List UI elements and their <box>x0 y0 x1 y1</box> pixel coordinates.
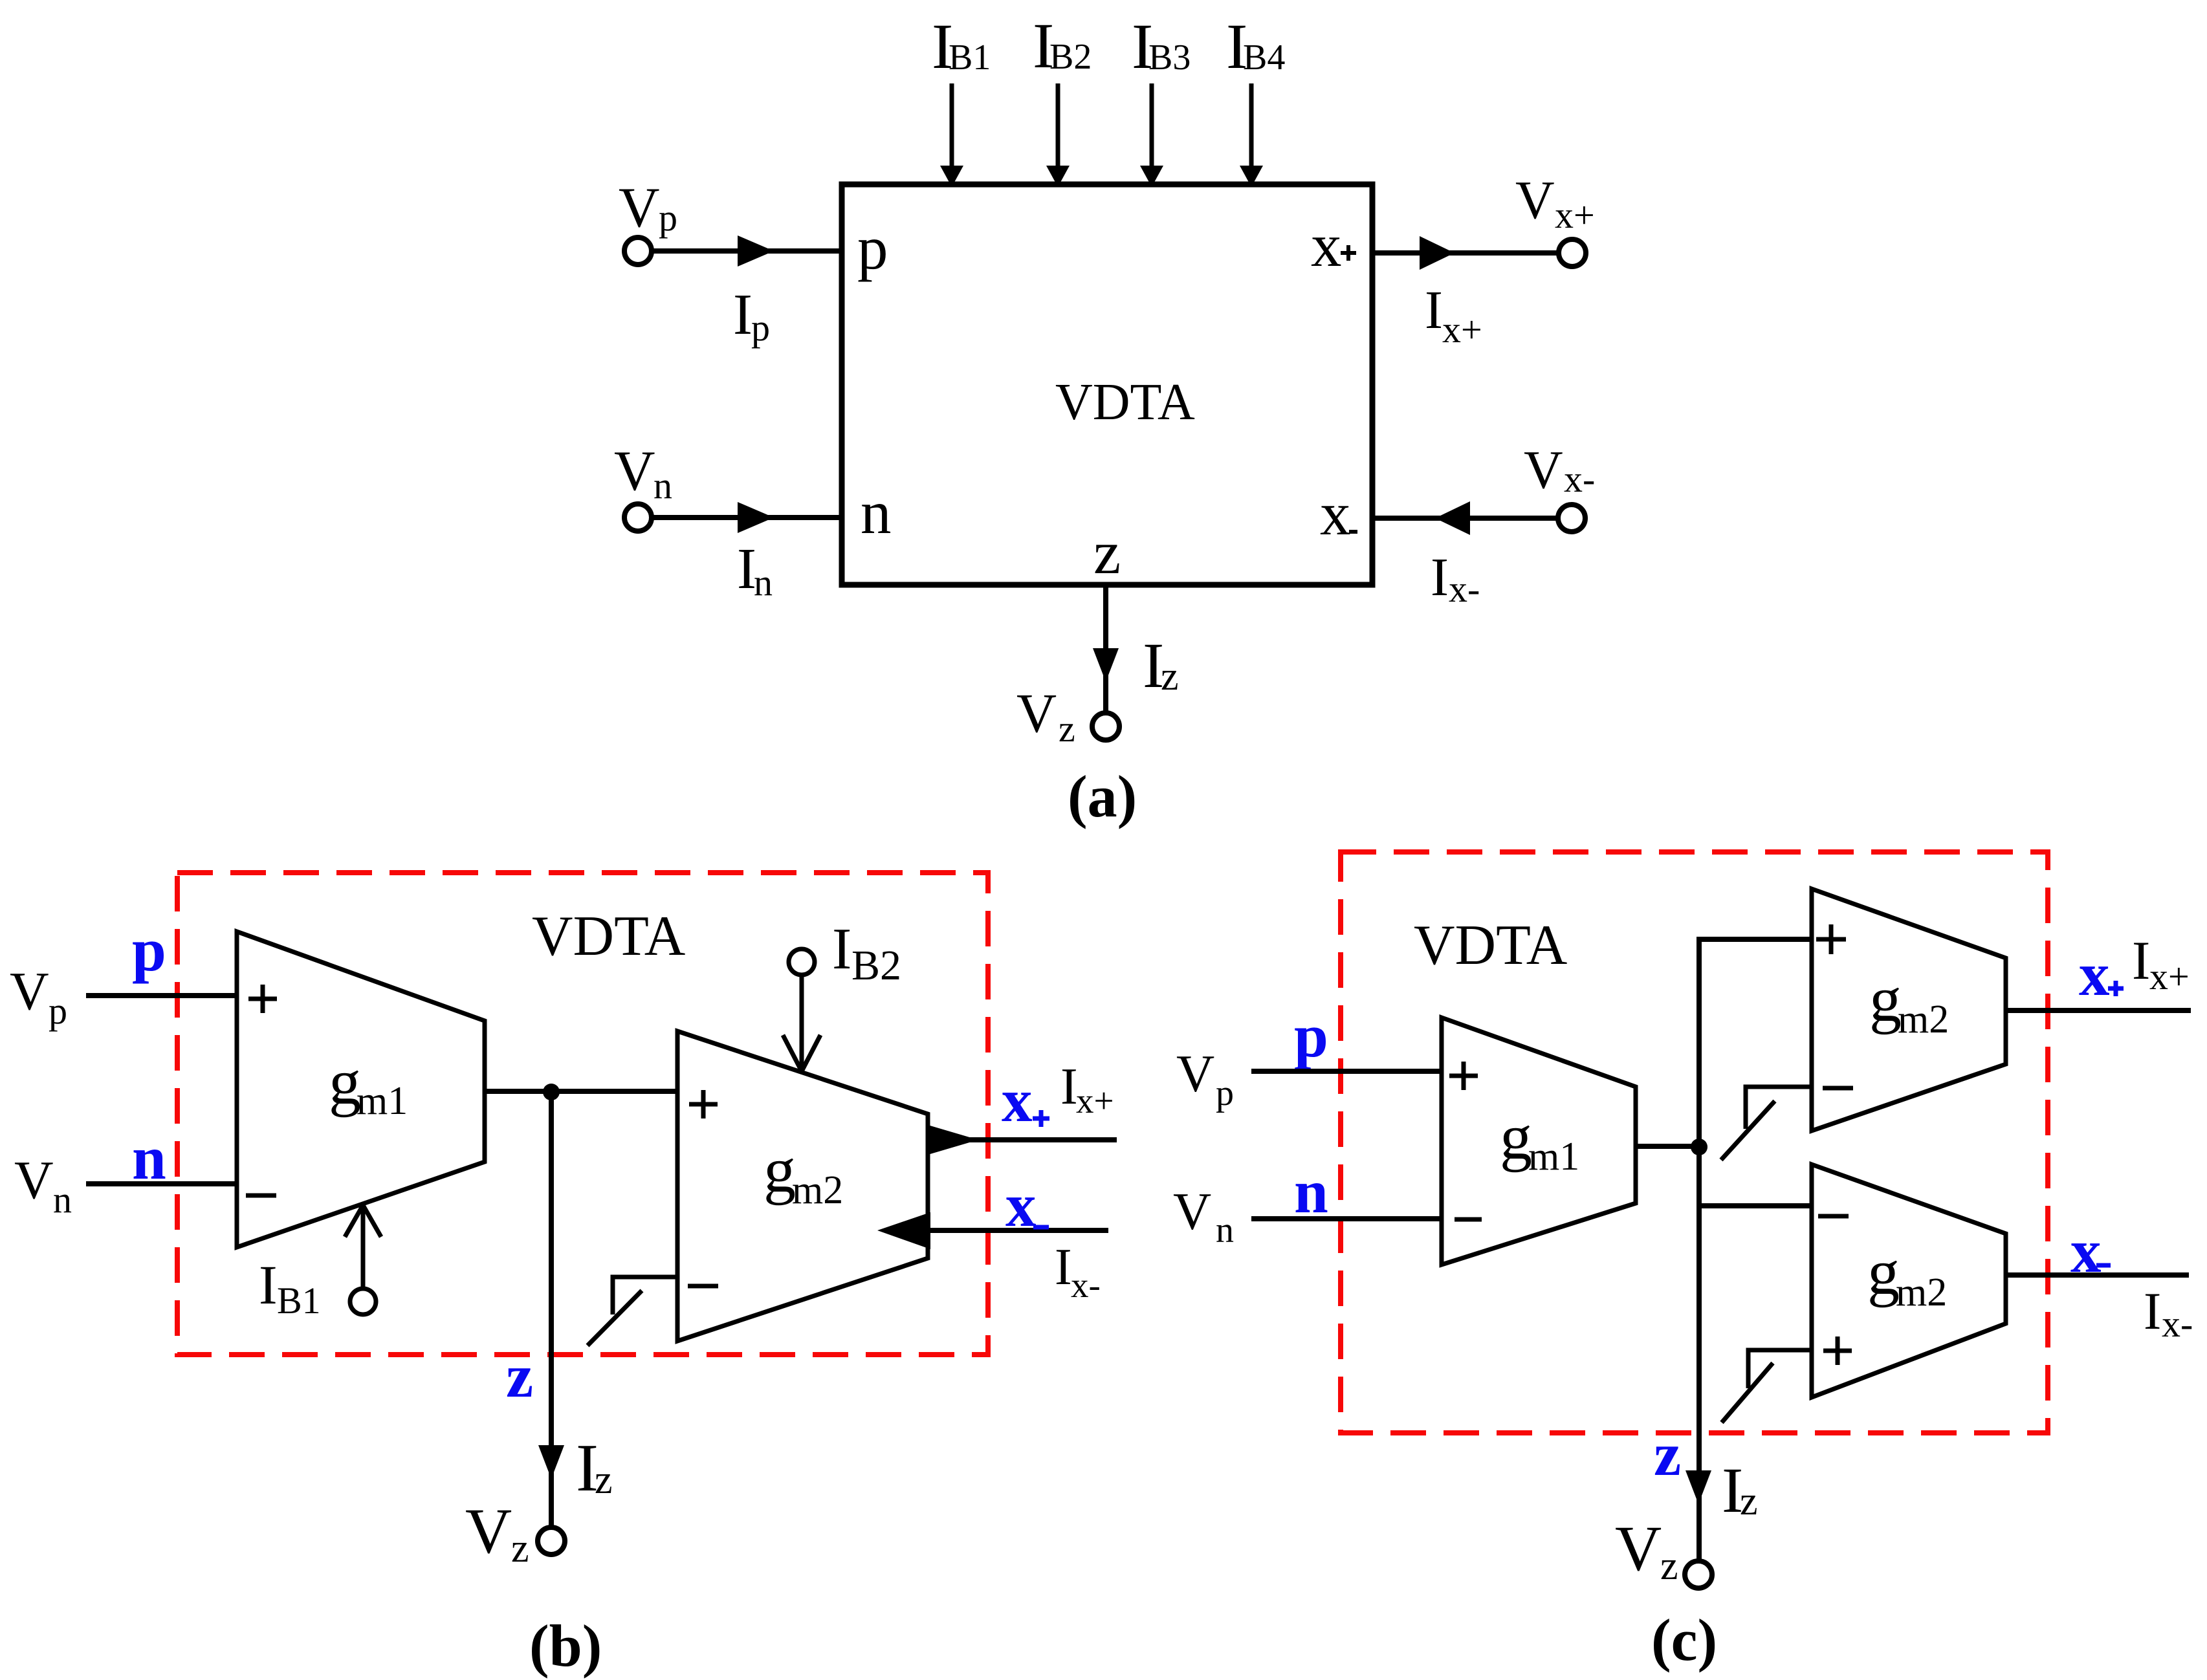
label Vx+ <box>1515 170 1595 236</box>
label Ix+ <box>1425 280 1482 351</box>
minus input gm2 upper (c) <box>1823 1086 1853 1091</box>
wire x+ output with arrow (b) <box>928 1125 1117 1155</box>
label Vn (b) <box>14 1150 72 1221</box>
svg-text:g: g <box>1869 963 1902 1035</box>
wire gm1 output (c) <box>1636 1144 1699 1149</box>
node label x- (c) <box>2070 1217 2111 1285</box>
wire z to Vz with current arrow Iz <box>1093 585 1119 713</box>
VDTA boundary dashed box (b) <box>177 873 988 1355</box>
node label x+ (b) <box>1002 1066 1049 1135</box>
svg-text:x+: x+ <box>1555 194 1595 236</box>
op-amp gm1 (c) <box>1442 1018 1636 1265</box>
wire Vx- to x- with current arrow Ix- <box>1372 501 1558 535</box>
terminal Vz (c) <box>1685 1561 1712 1588</box>
op-amp gm2 lower (c) <box>1812 1164 2006 1397</box>
svg-text:z: z <box>1161 655 1179 699</box>
VDTA block U1 <box>842 184 1372 585</box>
svg-text:VDTA: VDTA <box>532 905 685 968</box>
label Vp (b) <box>10 961 67 1032</box>
svg-text:(a): (a) <box>1068 763 1137 829</box>
svg-text:V: V <box>14 1150 54 1210</box>
label Iz (c) <box>1722 1454 1758 1526</box>
wire Vn to gm1 - (b) <box>86 1181 237 1186</box>
wire x+ output (c) <box>2006 1008 2191 1013</box>
plus input gm2 lower (c) <box>1823 1336 1852 1365</box>
svg-text:x: x <box>2079 940 2110 1009</box>
svg-text:z: z <box>1654 1420 1681 1489</box>
label Vn (c) <box>1173 1182 1234 1250</box>
bias label IB2 <box>1033 10 1092 82</box>
svg-text:B1: B1 <box>949 38 991 78</box>
svg-text:I: I <box>259 1254 278 1316</box>
terminal Vx+ <box>1559 239 1586 267</box>
minus input gm2 (b) <box>688 1284 718 1289</box>
svg-text:m2: m2 <box>792 1168 843 1212</box>
label Vn <box>614 440 672 507</box>
label Ix+ (c) <box>2132 930 2190 998</box>
svg-text:x+: x+ <box>1442 309 1482 351</box>
minus input gm2 lower (c) <box>1818 1214 1849 1219</box>
svg-text:x-: x- <box>1564 458 1595 500</box>
svg-text:I: I <box>2132 930 2150 991</box>
svg-text:x-: x- <box>1071 1265 1101 1305</box>
svg-text:I: I <box>1055 1239 1072 1296</box>
svg-text:p: p <box>659 197 677 239</box>
op-amp gm2 (b) <box>677 1031 928 1341</box>
label Ix+ (b) <box>1060 1058 1114 1120</box>
terminal Vz (b) <box>538 1527 565 1555</box>
wire x- input with arrow (b) <box>877 1212 1108 1249</box>
svg-text:x: x <box>1002 1066 1033 1135</box>
svg-text:p: p <box>1294 1001 1328 1070</box>
svg-text:m1: m1 <box>1528 1135 1579 1179</box>
svg-text:B2: B2 <box>851 942 901 989</box>
label Ix- (c) <box>2144 1282 2193 1345</box>
bias source IB2 (b) <box>783 949 820 1071</box>
svg-text:z: z <box>1740 1479 1758 1523</box>
svg-text:z: z <box>511 1527 529 1571</box>
terminal Vx- <box>1558 505 1585 532</box>
svg-text:p: p <box>49 990 67 1032</box>
wire x+ to Vx+ with current arrow Ix+ <box>1372 236 1559 270</box>
terminal Vn <box>624 504 652 531</box>
wire Vn to n with current arrow In <box>652 502 842 533</box>
terminal Vz <box>1092 713 1119 740</box>
svg-text:m2: m2 <box>1896 1271 1947 1315</box>
svg-text:m1: m1 <box>357 1079 408 1123</box>
svg-text:V: V <box>465 1495 512 1567</box>
label Iz (b) <box>576 1430 613 1505</box>
svg-text:V: V <box>1173 1182 1211 1241</box>
plus input gm1 (c) <box>1449 1062 1478 1090</box>
op-amp gm1 (b) <box>237 932 485 1247</box>
svg-text:V: V <box>10 961 49 1021</box>
svg-text:z: z <box>506 1342 533 1410</box>
label Vz (a) <box>1016 682 1075 750</box>
svg-text:I: I <box>2144 1282 2161 1340</box>
label Ix- <box>1431 547 1480 610</box>
svg-text:p: p <box>1216 1073 1234 1113</box>
svg-text:n: n <box>53 1179 72 1221</box>
svg-text:n: n <box>1294 1157 1328 1226</box>
node label x- (b) <box>1005 1171 1049 1239</box>
label gm2 (b) <box>763 1134 843 1212</box>
wire Vp to gm1 + (b) <box>86 993 237 998</box>
svg-text:V: V <box>1524 440 1563 500</box>
svg-text:z: z <box>1093 518 1121 587</box>
label Vp <box>619 177 677 239</box>
svg-text:(b): (b) <box>529 1613 602 1679</box>
node z junction dot (b) <box>543 1084 560 1100</box>
svg-text:(c): (c) <box>1651 1607 1717 1673</box>
label In <box>737 537 773 604</box>
svg-text:B3: B3 <box>1148 38 1191 78</box>
label Vp (c) <box>1176 1044 1234 1113</box>
svg-text:VDTA: VDTA <box>1055 374 1195 431</box>
wire x- output (c) <box>2006 1272 2189 1278</box>
svg-text:x+: x+ <box>2149 955 2190 998</box>
z-copy step symbol upper (c) <box>1721 1087 1812 1160</box>
label Ix- (b) <box>1055 1239 1101 1305</box>
svg-text:B2: B2 <box>1049 37 1092 77</box>
svg-text:g: g <box>763 1134 796 1206</box>
label Vz (c) <box>1615 1512 1678 1588</box>
z-copy step symbol lower (c) <box>1722 1350 1812 1423</box>
svg-text:g: g <box>1500 1101 1532 1173</box>
label Vz (b) <box>465 1495 529 1571</box>
svg-text:x-: x- <box>1449 568 1480 610</box>
bias source IB1 (b) <box>345 1205 381 1315</box>
label Ip <box>733 283 770 349</box>
minus input gm1 (c) <box>1455 1217 1482 1222</box>
terminal Vp <box>624 237 652 265</box>
wire Vp to p with current arrow Ip <box>652 235 842 267</box>
svg-text:n: n <box>1216 1210 1234 1250</box>
wire junction up to gm2a + (c) <box>1699 939 1812 1147</box>
svg-text:B4: B4 <box>1243 38 1285 78</box>
pin label x- <box>1320 479 1357 548</box>
svg-text:n: n <box>861 478 892 547</box>
svg-text:I: I <box>1060 1058 1078 1115</box>
svg-text:p: p <box>132 915 166 984</box>
wire Vn to gm1 - (c) <box>1251 1216 1442 1221</box>
node label x+ (c) <box>2079 940 2124 1009</box>
wire z down to Vz (b) <box>538 1092 564 1527</box>
label IB2 (b) <box>832 916 901 989</box>
svg-text:x-: x- <box>2162 1303 2193 1345</box>
label gm1 (c) <box>1500 1101 1579 1179</box>
label IB1 (b) <box>259 1254 321 1322</box>
svg-text:x: x <box>2070 1217 2102 1285</box>
svg-text:VDTA: VDTA <box>1414 914 1567 977</box>
label Iz (a) <box>1143 629 1179 701</box>
svg-text:x: x <box>1311 211 1342 279</box>
op-amp gm2 upper (c) <box>1812 889 2006 1131</box>
svg-text:x: x <box>1005 1171 1037 1239</box>
svg-text:B1: B1 <box>277 1280 321 1322</box>
svg-text:V: V <box>1016 682 1057 744</box>
bias label IB1 <box>932 10 991 82</box>
svg-text:V: V <box>1515 170 1555 230</box>
label Vx- <box>1524 440 1595 500</box>
VDTA boundary dashed box (c) <box>1341 852 2048 1433</box>
svg-text:z: z <box>595 1458 613 1502</box>
wire junction to gm2b - (c) <box>1699 1203 1812 1208</box>
bias label IB3 <box>1132 10 1191 82</box>
wire gm1 output to gm2 + (b) <box>485 1089 677 1094</box>
svg-text:I: I <box>1425 280 1443 340</box>
node z junction dot (c) <box>1691 1139 1707 1155</box>
svg-text:g: g <box>1867 1236 1900 1308</box>
wire z down to Vz (c) <box>1685 1147 1711 1561</box>
label gm1 (b) <box>329 1046 408 1123</box>
z-copy step symbol (b) <box>587 1277 677 1346</box>
svg-text:x+: x+ <box>1076 1081 1114 1120</box>
label gm2 upper (c) <box>1869 963 1949 1042</box>
svg-text:I: I <box>1431 547 1449 607</box>
plus input gm2 (b) <box>689 1090 718 1118</box>
svg-text:m2: m2 <box>1898 998 1949 1042</box>
svg-text:p: p <box>751 307 770 349</box>
svg-text:p: p <box>857 213 888 282</box>
minus input gm1 (b) <box>246 1194 276 1198</box>
bias arrow IB3 <box>1140 83 1163 187</box>
svg-text:n: n <box>653 464 672 507</box>
svg-text:V: V <box>1615 1512 1662 1584</box>
label gm2 lower (c) <box>1867 1236 1947 1315</box>
svg-text:z: z <box>1660 1544 1678 1588</box>
svg-text:V: V <box>1176 1044 1214 1103</box>
svg-text:V: V <box>619 177 660 239</box>
bias label IB4 <box>1226 10 1285 82</box>
svg-text:V: V <box>614 440 655 503</box>
plus input gm2 upper (c) <box>1816 924 1846 954</box>
plus input gm1 (b) <box>248 985 277 1013</box>
bias arrow IB1 <box>940 83 963 187</box>
pin label x+ <box>1311 211 1356 279</box>
wire Vp to gm1 + (c) <box>1251 1069 1442 1074</box>
bias arrow IB2 <box>1046 83 1070 187</box>
bias arrow IB4 <box>1240 83 1263 187</box>
svg-text:n: n <box>754 562 773 604</box>
svg-text:I: I <box>733 283 752 347</box>
svg-text:I: I <box>832 916 851 981</box>
svg-text:x: x <box>1320 479 1351 548</box>
svg-text:z: z <box>1059 708 1075 750</box>
